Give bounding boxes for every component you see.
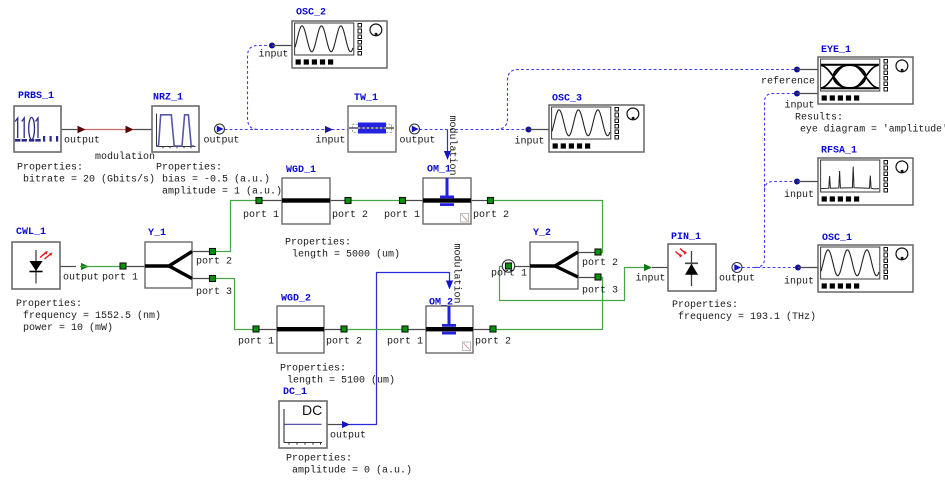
svg-text:Properties:: Properties: xyxy=(280,363,346,375)
svg-text:Properties:: Properties: xyxy=(286,453,352,465)
svg-text:PRBS_1: PRBS_1 xyxy=(18,91,54,102)
wire optical Y_1 port2 to WGD_1 port1 (green) xyxy=(216,201,256,252)
arrow on PRBS-NRZ wire 2 xyxy=(126,126,134,134)
svg-text:port 3: port 3 xyxy=(196,287,232,298)
wire branch to RFSA_1 input (blue dashed) xyxy=(765,182,798,191)
wire OM_2 port1 stub xyxy=(409,329,427,331)
svg-text:modulation: modulation xyxy=(451,244,463,304)
arrow on CWL output xyxy=(81,263,89,270)
node OSC_1 input dot xyxy=(795,265,801,271)
wire OM_1 port1 stub xyxy=(406,200,423,202)
port square OM_1 port2 xyxy=(488,198,494,204)
svg-text:port 3: port 3 xyxy=(582,286,618,297)
instrument OSC_3 xyxy=(549,105,644,152)
port square WGD_1 port2 xyxy=(345,198,351,204)
wire Y_1 port3 stub xyxy=(192,278,209,280)
svg-text:frequency = 193.1 (THz): frequency = 193.1 (THz) xyxy=(678,311,816,323)
wire EYE_1 reference stub xyxy=(797,69,818,71)
wire EYE_1 input stub xyxy=(797,93,818,95)
component DC_1 xyxy=(279,401,327,448)
svg-text:port 2: port 2 xyxy=(196,257,232,268)
port square WGD_1 port1 xyxy=(256,198,262,204)
svg-text:port 1: port 1 xyxy=(238,337,274,348)
port square Y_2 port3 xyxy=(595,274,601,280)
svg-text:bias = -0.5 (a.u.): bias = -0.5 (a.u.) xyxy=(162,174,270,186)
wire optical OM_2 to Y_2 port3 (green) xyxy=(497,278,603,330)
svg-text:port 2: port 2 xyxy=(326,337,362,348)
port square CWL net xyxy=(120,263,126,269)
wire optical Y_2 port1 to PIN input (green) xyxy=(500,267,645,301)
port square OM_1 port1 xyxy=(400,198,406,204)
wire electrical net PRBS to NRZ (red) xyxy=(77,129,134,131)
wire WGD_1 port1 stub xyxy=(263,200,283,202)
svg-text:WGD_1: WGD_1 xyxy=(286,165,316,176)
wire NRZ input stub xyxy=(134,129,152,131)
wire optical WGD_1 to OM_1 (green) xyxy=(352,200,400,202)
wire riser to EYE_1 input (blue dashed) xyxy=(755,94,797,268)
svg-text:port 2: port 2 xyxy=(473,210,509,221)
port square Y_2 port1 (circled) xyxy=(502,260,514,272)
wire branch up to EYE_1 reference (blue dashed) xyxy=(496,70,797,130)
svg-text:output: output xyxy=(204,136,240,147)
svg-text:output: output xyxy=(64,136,100,147)
component WGD_1 xyxy=(282,178,330,224)
svg-text:port 2: port 2 xyxy=(332,210,368,221)
component WGD_2 xyxy=(277,306,324,353)
svg-text:port 1: port 1 xyxy=(102,273,138,284)
svg-text:OM_2: OM_2 xyxy=(429,298,453,309)
wire PRBS_1 output stub xyxy=(61,129,77,131)
instrument OSC_1 xyxy=(818,245,913,292)
arrow into OM_2 modulation xyxy=(446,281,453,290)
port square Y_1 port2 xyxy=(210,249,216,255)
wire OSC_3 input stub xyxy=(529,129,550,131)
node RFSA_1 input dot xyxy=(794,179,800,185)
wire NRZ output to TW input (blue dashed) xyxy=(225,129,349,131)
svg-text:frequency = 1552.5 (nm): frequency = 1552.5 (nm) xyxy=(23,310,161,322)
svg-text:amplitude = 0 (a.u.): amplitude = 0 (a.u.) xyxy=(292,465,412,477)
svg-text:DC: DC xyxy=(302,402,322,418)
instrument RFSA_1 xyxy=(818,158,913,205)
component TW_1 xyxy=(348,106,396,152)
arrow into PIN_1 input xyxy=(644,264,652,271)
svg-text:PIN_1: PIN_1 xyxy=(671,232,701,243)
wire OM_1 port2 stub xyxy=(471,200,487,202)
arrow on PRBS-NRZ wire 1 xyxy=(78,126,86,134)
svg-text:OSC_1: OSC_1 xyxy=(822,233,852,244)
node EYE_1 reference dot xyxy=(794,67,800,73)
wire RFSA_1 input stub xyxy=(797,181,818,183)
arrow into TW_1 input xyxy=(325,126,333,133)
wire OSC_1 input stub xyxy=(798,267,818,269)
port circle NRZ_1 output xyxy=(215,124,225,134)
port square Y_1 port3 xyxy=(210,276,216,282)
svg-text:CWL_1: CWL_1 xyxy=(16,227,46,238)
svg-text:input: input xyxy=(784,276,814,288)
wire Y_2 port1 stub xyxy=(515,266,530,268)
node OSC_3 input dot xyxy=(526,127,532,133)
node EYE_1 input dot xyxy=(794,91,800,97)
svg-text:Y_1: Y_1 xyxy=(148,228,166,239)
svg-text:output: output xyxy=(400,136,436,147)
svg-text:Properties:: Properties: xyxy=(17,162,83,174)
svg-text:output: output xyxy=(63,273,99,284)
component PRBS_1 xyxy=(14,106,61,152)
svg-text:port 1: port 1 xyxy=(387,337,423,348)
port square Y_2 port2 xyxy=(595,249,601,255)
port square WGD_2 port2 xyxy=(341,326,347,332)
svg-text:power = 10 (mW): power = 10 (mW) xyxy=(23,322,113,334)
svg-text:input: input xyxy=(636,273,666,285)
svg-text:output: output xyxy=(719,274,755,285)
svg-text:OSC_3: OSC_3 xyxy=(552,94,582,105)
wire PIN output to OSC_1 (blue dashed) xyxy=(742,267,798,269)
port circle PIN_1 output xyxy=(732,263,742,273)
wire WGD_2 port2 stub xyxy=(324,329,341,331)
component Y_1 xyxy=(145,242,192,288)
wire OSC_2 input stub xyxy=(272,45,292,47)
wire DC_1 output stub xyxy=(327,424,342,426)
arrow into OM_1 modulation xyxy=(444,151,451,160)
port circle TW_1 output xyxy=(410,124,420,134)
component OM_1 xyxy=(423,178,471,224)
wire Y_1 port1 stub xyxy=(126,266,145,268)
arrow on DC_1 output xyxy=(342,421,350,428)
svg-text:output: output xyxy=(330,431,366,442)
svg-text:modulation: modulation xyxy=(95,151,155,163)
node OSC_2 input dot xyxy=(269,43,275,49)
svg-text:OM_1: OM_1 xyxy=(427,165,451,176)
wire Y_2 port2 stub xyxy=(578,252,595,254)
svg-text:DC_1: DC_1 xyxy=(283,387,307,398)
svg-text:port 2: port 2 xyxy=(475,337,511,348)
svg-text:eye diagram = 'amplitude': eye diagram = 'amplitude' xyxy=(800,124,945,136)
wire DC_1 to OM_2 modulation (blue solid) xyxy=(349,273,450,425)
component Y_2 xyxy=(530,242,578,289)
svg-text:NRZ_1: NRZ_1 xyxy=(153,93,183,104)
svg-text:Results:: Results: xyxy=(795,112,843,124)
svg-text:bitrate = 20 (Gbits/s): bitrate = 20 (Gbits/s) xyxy=(23,174,155,186)
component CWL_1 xyxy=(12,242,60,289)
svg-text:amplitude = 1 (a.u.): amplitude = 1 (a.u.) xyxy=(162,186,282,198)
svg-text:OSC_2: OSC_2 xyxy=(296,8,326,19)
svg-text:input: input xyxy=(515,136,545,148)
wire PIN input stub xyxy=(652,267,668,269)
svg-text:Y_2: Y_2 xyxy=(533,228,551,239)
wire Y_2 port3 stub xyxy=(578,277,595,279)
svg-text:input: input xyxy=(784,189,814,201)
svg-text:RFSA_1: RFSA_1 xyxy=(821,146,857,157)
instrument OSC_2 xyxy=(292,21,387,68)
port square WGD_2 port1 xyxy=(253,326,259,332)
svg-text:Properties:: Properties: xyxy=(16,298,82,310)
wire OM_2 port2 stub xyxy=(473,329,490,331)
wire WGD_1 port2 stub xyxy=(330,200,345,202)
svg-text:input: input xyxy=(316,135,346,147)
svg-text:Properties:: Properties: xyxy=(156,162,222,174)
svg-text:EYE_1: EYE_1 xyxy=(821,45,851,56)
component OM_2 xyxy=(426,306,473,353)
wire WGD_2 port1 stub xyxy=(260,329,278,331)
wire branch up to OSC_2 (blue dashed) xyxy=(248,46,273,130)
svg-text:port 1: port 1 xyxy=(384,210,420,221)
svg-text:length = 5000 (um): length = 5000 (um) xyxy=(292,249,400,261)
svg-text:WGD_2: WGD_2 xyxy=(281,294,311,305)
wire Y_1 port2 stub xyxy=(192,251,209,253)
wire optical Y_1 port3 to WGD_2 port1 (green) xyxy=(216,279,253,330)
svg-text:TW_1: TW_1 xyxy=(354,93,378,104)
svg-text:Properties:: Properties: xyxy=(285,237,351,249)
svg-text:port 2: port 2 xyxy=(582,258,618,269)
port square OM_2 port1 xyxy=(402,326,408,332)
instrument EYE_1 xyxy=(818,57,913,104)
wire CWL output stub xyxy=(60,266,76,268)
wire optical CWL to Y_1 (green) xyxy=(80,266,120,268)
svg-text:length = 5100 (um): length = 5100 (um) xyxy=(287,375,395,387)
component NRZ_1 xyxy=(152,106,199,152)
wire TW output to OSC_3 (blue dashed) xyxy=(420,129,529,131)
svg-text:input: input xyxy=(259,49,289,61)
port square OM_2 port2 xyxy=(490,326,496,332)
wire optical OM_1 to Y_2 port2 (green) xyxy=(494,201,603,253)
svg-text:port 1: port 1 xyxy=(491,269,527,280)
svg-text:reference: reference xyxy=(761,76,815,88)
svg-text:input: input xyxy=(785,100,815,112)
component PIN_1 xyxy=(668,244,716,291)
wire optical WGD_2 to OM_2 (green) xyxy=(348,329,403,331)
svg-text:port 1: port 1 xyxy=(243,210,279,221)
svg-text:Properties:: Properties: xyxy=(672,299,738,311)
wire TW modulation drop to OM_1 (blue solid) xyxy=(447,130,449,153)
